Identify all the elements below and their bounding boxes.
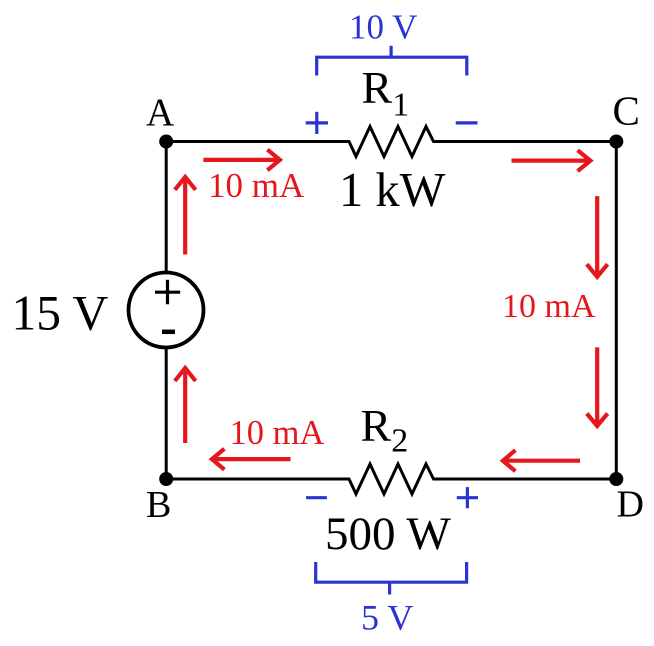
svg-text:10 mA: 10 mA xyxy=(208,166,305,205)
svg-text:A: A xyxy=(146,91,174,134)
svg-text:C: C xyxy=(613,88,640,134)
svg-text:5 V: 5 V xyxy=(361,598,413,638)
svg-text:10 V: 10 V xyxy=(349,7,417,46)
svg-text:15 V: 15 V xyxy=(12,286,109,341)
svg-text:1 kW: 1 kW xyxy=(339,164,446,217)
svg-text:500 W: 500 W xyxy=(325,508,451,560)
svg-text:10 mA: 10 mA xyxy=(502,288,596,325)
svg-text:B: B xyxy=(146,484,171,526)
svg-text:D: D xyxy=(617,484,644,526)
svg-text:10 mA: 10 mA xyxy=(230,414,325,452)
